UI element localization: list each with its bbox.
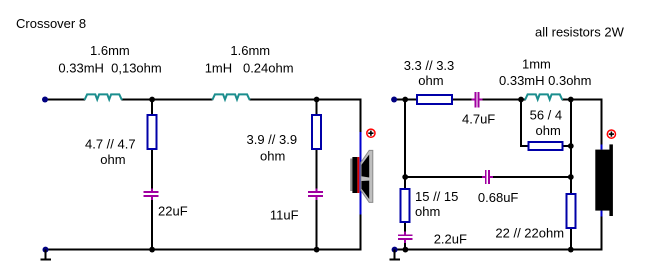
wire bottom right circuit [395, 249, 603, 251]
svg-text:22 // 22ohm: 22 // 22ohm [495, 226, 564, 241]
svg-text:3.9 // 3.9: 3.9 // 3.9 [247, 132, 298, 147]
svg-text:all resistors 2W: all resistors 2W [535, 25, 625, 40]
wire top right circuit [394, 99, 603, 101]
wire branch 2 vertical [316, 100, 318, 250]
svg-text:1mm: 1mm [522, 56, 551, 71]
polarity mark right speaker [607, 130, 615, 138]
svg-text:0.33mH 0.3ohm: 0.33mH 0.3ohm [499, 73, 592, 88]
capacitor C5 2.2uF [398, 231, 412, 243]
speaker LS2 (tweeter side view) [595, 144, 613, 216]
resistor R1 4.7//4.7 [148, 115, 157, 149]
ground symbol right [390, 250, 400, 260]
svg-text:1.6mm: 1.6mm [90, 43, 130, 58]
capacitor C3 4.7uF [472, 92, 483, 108]
inductor L2 1mH [212, 94, 249, 100]
svg-text:56 / 4: 56 / 4 [530, 108, 563, 123]
junction dots left circuit [149, 97, 319, 253]
svg-text:15 // 15: 15 // 15 [415, 189, 458, 204]
wire branch 1 vertical [151, 100, 153, 250]
svg-text:ohm: ohm [260, 149, 285, 164]
wire mid horizontal 0.68uF run [405, 176, 571, 178]
speaker LS1 (woofer side view) [350, 150, 373, 202]
capacitor C2 11uF [308, 188, 323, 200]
inductor L1 0.33mH [85, 94, 122, 100]
terminal node ground left [43, 247, 49, 253]
resistor R4 56/4 [529, 142, 563, 150]
wire right vertical of circuit2 [570, 100, 572, 250]
svg-text:ohm: ohm [100, 152, 125, 167]
capacitor C4 0.68uF [482, 170, 493, 184]
wire bottom left run [46, 249, 362, 251]
resistor R6 22//22 [566, 194, 575, 228]
terminal node ground right [392, 247, 398, 253]
wire left circuit right side (speaker feed) [360, 100, 362, 251]
svg-text:22uF: 22uF [158, 203, 188, 218]
resistor R3 3.3//3.3 [417, 95, 452, 104]
svg-text:Crossover 8: Crossover 8 [16, 16, 86, 31]
resistor R5 15//15 [401, 189, 410, 222]
wire bypass branch 56/4 [521, 100, 571, 148]
svg-text:4.7 // 4.7: 4.7 // 4.7 [85, 137, 136, 152]
polarity mark left speaker [367, 129, 375, 137]
svg-text:11uF: 11uF [270, 208, 299, 223]
svg-text:1.6mm: 1.6mm [230, 43, 270, 58]
svg-text:0.68uF: 0.68uF [478, 190, 519, 205]
capacitor C1 22uF [144, 188, 159, 200]
svg-text:ohm: ohm [536, 123, 561, 138]
svg-text:4.7uF: 4.7uF [462, 112, 495, 127]
resistor R2 3.9//3.9 [312, 115, 321, 149]
terminal node input right [391, 97, 397, 103]
svg-text:2.2uF: 2.2uF [434, 232, 467, 247]
wire top left run [45, 99, 362, 101]
svg-text:ohm: ohm [415, 204, 440, 219]
inductor L3 0.33mH [525, 94, 562, 100]
wire speaker2 feed [601, 100, 603, 250]
terminal node input left [42, 97, 48, 103]
svg-text:0.33mH 0,13ohm: 0.33mH 0,13ohm [58, 61, 161, 76]
junction dots right circuit [402, 97, 573, 253]
svg-text:1mH 0.24ohm: 1mH 0.24ohm [205, 61, 294, 76]
ground symbol left [41, 250, 51, 260]
wire left vertical of circuit2 [404, 100, 406, 250]
svg-text:ohm: ohm [418, 73, 443, 88]
svg-text:3.3 // 3.3: 3.3 // 3.3 [404, 58, 455, 73]
